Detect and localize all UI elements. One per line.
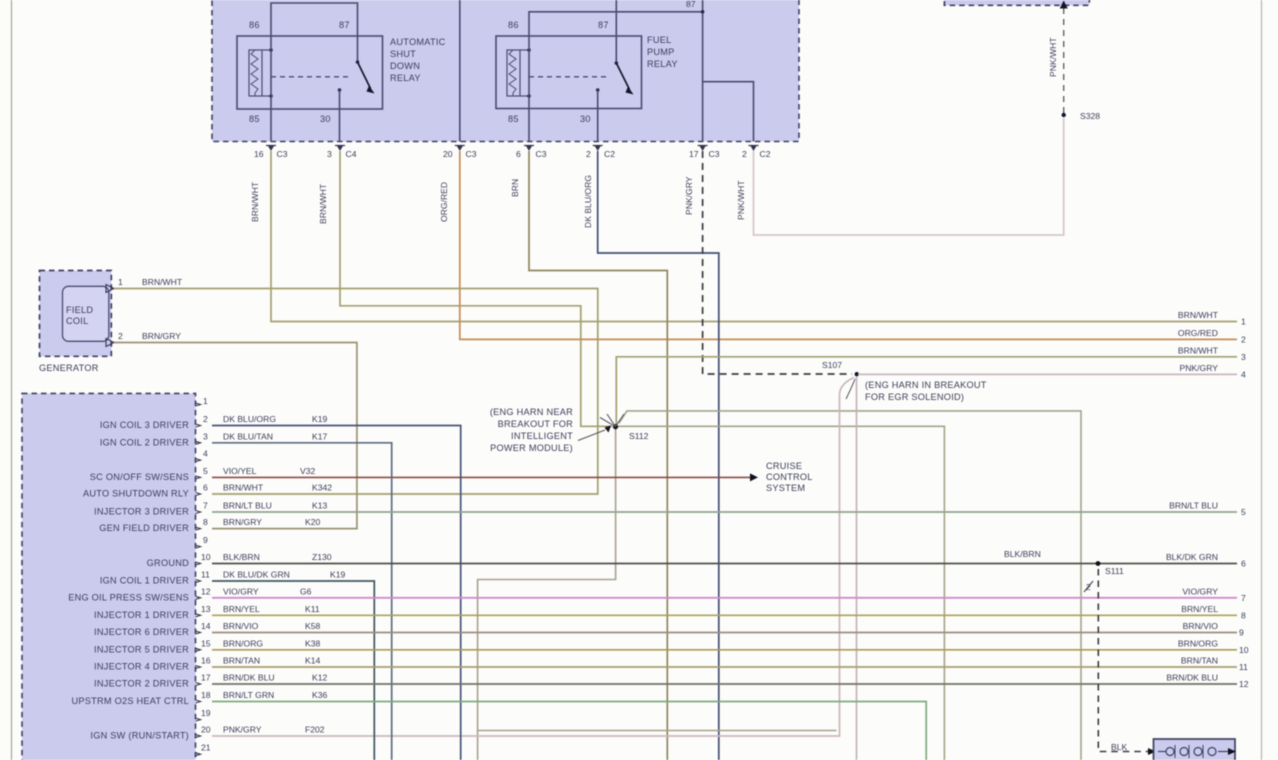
svg-text:SHUT: SHUT: [390, 49, 416, 59]
label VIO/YEL V32 pin5: [223, 466, 316, 476]
svg-text:K12: K12: [312, 673, 328, 683]
svg-text:C3: C3: [536, 149, 547, 159]
ground connector block bottom right: [1154, 739, 1237, 760]
svg-text:2: 2: [118, 331, 123, 341]
svg-text:87: 87: [339, 20, 350, 30]
wire VIO/YEL to cruise control: [212, 473, 758, 481]
svg-text:17: 17: [201, 673, 211, 683]
wire DK BLU/TAN K17 pin3 ignition coil 2: [212, 431, 392, 760]
svg-text:(ENG HARN NEAR: (ENG HARN NEAR: [490, 407, 573, 417]
connector C3 pin 17 symbol: [689, 146, 720, 160]
svg-text:3: 3: [1241, 352, 1246, 362]
svg-text:6: 6: [1241, 559, 1246, 569]
svg-text:K58: K58: [305, 621, 321, 631]
svg-text:2: 2: [586, 149, 591, 159]
svg-text:BRN/WHT: BRN/WHT: [250, 181, 260, 222]
svg-text:BRN/LT BLU: BRN/LT BLU: [1169, 501, 1218, 511]
svg-text:K36: K36: [312, 690, 328, 700]
svg-text:86: 86: [508, 20, 519, 30]
svg-text:1: 1: [1241, 317, 1246, 327]
wire DK BLU/DK GRN K19 pin11 ignition coil 1: [212, 570, 374, 760]
svg-text:INJECTOR 1 DRIVER: INJECTOR 1 DRIVER: [94, 610, 189, 620]
svg-text:K14: K14: [305, 656, 321, 666]
svg-text:FIELD: FIELD: [66, 305, 93, 315]
svg-text:10: 10: [201, 552, 211, 562]
border right: [1261, 0, 1263, 760]
svg-text:17: 17: [689, 149, 699, 159]
svg-text:BRN/DK BLU: BRN/DK BLU: [223, 673, 275, 683]
svg-text:14: 14: [201, 621, 211, 631]
svg-text:PNK/WHT: PNK/WHT: [736, 180, 746, 220]
wire S112 through line to bottom at x944: [616, 426, 945, 760]
svg-text:PNK/WHT: PNK/WHT: [1048, 37, 1058, 77]
svg-text:BRN/YEL: BRN/YEL: [223, 604, 260, 614]
svg-text:BRN/LT BLU: BRN/LT BLU: [223, 501, 272, 511]
field coil inner box: [63, 286, 109, 341]
svg-text:8: 8: [1241, 610, 1246, 620]
svg-text:S111: S111: [1105, 566, 1124, 576]
wire BRN/WHT from C4-3 to S112: [318, 151, 612, 426]
svg-text:BLK: BLK: [1111, 742, 1128, 752]
connector C3 pin 6 symbol: [516, 146, 547, 160]
generator dashed box: [40, 271, 112, 357]
generator name label: [39, 363, 99, 373]
relay K2 name label: [647, 35, 678, 69]
wire ORG/RED feed inside PDC: [459, 0, 461, 142]
wire PNK/GRY S107 down to bottom edge: [856, 376, 858, 760]
svg-text:21: 21: [201, 743, 211, 753]
svg-text:18: 18: [201, 690, 211, 700]
wire PNK/GRY dashed from C3-17 to S107: [684, 151, 852, 374]
right edge label row2 ORG/RED: [1178, 328, 1246, 345]
svg-text:PNK/GRY: PNK/GRY: [684, 176, 694, 215]
wire BLK/BRN Z130 pin10 ground row6: [212, 552, 1237, 564]
svg-text:K19: K19: [330, 570, 346, 580]
relay K1 name label: [390, 37, 446, 83]
svg-text:2: 2: [1241, 334, 1246, 344]
svg-text:RELAY: RELAY: [647, 59, 678, 69]
wire PNK/GRY feed inside PDC: [701, 0, 705, 142]
svg-text:2: 2: [742, 149, 747, 159]
svg-text:11: 11: [201, 570, 210, 580]
svg-text:BRN: BRN: [510, 179, 520, 197]
svg-text:BLK/DK GRN: BLK/DK GRN: [1166, 552, 1218, 562]
svg-text:20: 20: [201, 725, 211, 735]
svg-text:ORG/RED: ORG/RED: [439, 182, 449, 222]
relay K1 pin 30 wire: [338, 88, 342, 141]
svg-text:C2: C2: [760, 149, 771, 159]
svg-text:C3: C3: [277, 149, 288, 159]
right edge label row11 BRN/TAN: [1181, 656, 1248, 673]
wire PNK/WHT from C2-2b: [736, 118, 1064, 235]
svg-text:IGN COIL 1 DRIVER: IGN COIL 1 DRIVER: [100, 576, 189, 586]
generator pin 2 terminal: [106, 331, 123, 347]
svg-text:VIO/YEL: VIO/YEL: [223, 466, 257, 476]
svg-text:BRN/GRY: BRN/GRY: [223, 517, 262, 527]
svg-text:FOR EGR SOLENOID): FOR EGR SOLENOID): [865, 392, 964, 402]
svg-text:DK BLU/ORG: DK BLU/ORG: [223, 414, 276, 424]
right edge label row4 PNK/GRY: [1179, 363, 1246, 380]
wire BRN/VIO K58 pin14 injector6 row9: [212, 621, 1237, 633]
power distribution center dashed box: [212, 0, 799, 142]
svg-text:S112: S112: [629, 431, 649, 441]
connector C4 pin 3 symbol: [327, 146, 357, 160]
connector C2 pin 2b symbol: [742, 146, 771, 160]
svg-text:BRN/WHT: BRN/WHT: [223, 483, 264, 493]
svg-text:BLK/BRN: BLK/BRN: [223, 552, 260, 562]
svg-text:K13: K13: [312, 501, 328, 511]
svg-text:IGN COIL 3 DRIVER: IGN COIL 3 DRIVER: [100, 420, 189, 430]
relay K2 coil: [507, 48, 531, 98]
svg-text:INJECTOR 4 DRIVER: INJECTOR 4 DRIVER: [94, 662, 189, 672]
right edge label row7 VIO/GRY: [1182, 586, 1246, 603]
svg-text:S328: S328: [1080, 111, 1100, 121]
right edge label row10 BRN/ORG: [1178, 638, 1249, 655]
svg-text:VIO/GRY: VIO/GRY: [1182, 586, 1218, 596]
svg-text:V32: V32: [300, 466, 316, 476]
svg-text:GEN FIELD DRIVER: GEN FIELD DRIVER: [99, 523, 189, 533]
PCM dashed box: [22, 393, 196, 760]
svg-text:C3: C3: [709, 149, 720, 159]
connector C3 pin 20 symbol: [443, 146, 477, 160]
svg-text:3: 3: [327, 149, 332, 159]
wire VIO/GRY G6 pin12 oil press row7: [212, 586, 1237, 598]
svg-text:12: 12: [1239, 679, 1249, 689]
label BRN/GRY K20 pin8: [223, 517, 321, 527]
svg-text:K19: K19: [312, 414, 328, 424]
relay K2 switch blade: [615, 61, 634, 94]
svg-text:5: 5: [203, 466, 208, 476]
generator pin 1 terminal: [106, 277, 123, 293]
wire S112 branch to lower right and bottom edge: [619, 411, 1081, 760]
wire BLK dashed ground from S111: [1084, 569, 1156, 755]
wire S112 lower leg loop: [478, 427, 837, 760]
connector C2 pin 2 symbol: [586, 146, 615, 160]
splice S111: [1096, 561, 1124, 576]
wire BRN from C3-6 down: [510, 151, 667, 760]
right edge label row12 BRN/DK BLU: [1166, 673, 1248, 690]
connector C3 pin 16 symbol: [254, 146, 288, 160]
svg-text:2: 2: [1086, 582, 1091, 592]
svg-text:BRN/GRY: BRN/GRY: [142, 331, 181, 341]
junction block dashed box top right: [944, 0, 1089, 5]
svg-text:BRN/VIO: BRN/VIO: [1183, 621, 1219, 631]
svg-text:11: 11: [1239, 662, 1248, 672]
border left: [11, 0, 13, 760]
relay K1 pin 86 wire and loop to 87: [271, 3, 358, 142]
svg-text:G6: G6: [300, 586, 312, 596]
wire BRN/DK BLU K12 pin17 injector2 row12: [212, 673, 1237, 685]
relay K2 pin 87 feed wire from top: [615, 0, 617, 63]
wire DK BLU/ORG K19 pin2 ignition coil 3: [212, 414, 461, 760]
splice S107: [822, 360, 859, 376]
PCM pin stubs 1-21: [196, 403, 201, 756]
svg-text:AUTOMATIC: AUTOMATIC: [390, 37, 446, 47]
svg-text:86: 86: [249, 20, 260, 30]
svg-text:85: 85: [508, 114, 519, 124]
svg-text:DK BLU/DK GRN: DK BLU/DK GRN: [223, 570, 290, 580]
svg-text:7: 7: [203, 501, 208, 511]
svg-text:IGN SW (RUN/START): IGN SW (RUN/START): [90, 731, 189, 741]
svg-text:K342: K342: [312, 483, 332, 493]
wire PNK/GRY row4 S107 to right edge: [858, 373, 1237, 375]
relay K2 pin labels: [508, 20, 609, 124]
wire BRN/YEL K11 pin13 injector1 row8: [212, 604, 1237, 616]
label BRN/WHT K342 pin6: [223, 483, 332, 493]
relay K1 automatic shut down relay body: [237, 36, 383, 109]
right edge label row1 BRN/WHT: [1178, 310, 1246, 327]
relay K2 pin 30 wire: [596, 88, 600, 141]
svg-text:19: 19: [201, 708, 211, 718]
right edge label row6 BLK/DK GRN: [1166, 552, 1246, 569]
svg-text:7: 7: [1241, 593, 1246, 603]
svg-text:BRN/WHT: BRN/WHT: [142, 277, 183, 287]
PCM pin numbers: [201, 396, 211, 753]
wire PNK/WHT dashed to junction block: [1048, 1, 1068, 116]
relay K2 armature dashed: [529, 76, 610, 78]
svg-text:ORG/RED: ORG/RED: [1178, 328, 1218, 338]
svg-text:BRN/LT GRN: BRN/LT GRN: [223, 690, 274, 700]
svg-text:BRN/TAN: BRN/TAN: [1181, 656, 1218, 666]
svg-text:FUEL: FUEL: [647, 35, 672, 45]
svg-text:3: 3: [203, 431, 208, 441]
label PNK/GRY F202 pin20: [223, 725, 325, 735]
svg-text:BRN/TAN: BRN/TAN: [223, 656, 260, 666]
label cruise control system: [766, 461, 813, 493]
svg-text:BREAKOUT FOR: BREAKOUT FOR: [498, 419, 573, 429]
svg-text:15: 15: [201, 638, 211, 648]
svg-text:GENERATOR: GENERATOR: [39, 363, 99, 373]
svg-text:BRN/ORG: BRN/ORG: [223, 638, 263, 648]
right edge label row5 BRN/LT BLU: [1169, 501, 1246, 518]
svg-text:6: 6: [203, 483, 208, 493]
relay K2 pin 86 wire and loop: [529, 12, 703, 142]
svg-text:INTELLIGENT: INTELLIGENT: [511, 431, 573, 441]
svg-text:5: 5: [1241, 507, 1246, 517]
svg-text:INJECTOR 2 DRIVER: INJECTOR 2 DRIVER: [94, 679, 189, 689]
svg-text:AUTO SHUTDOWN RLY: AUTO SHUTDOWN RLY: [83, 489, 189, 499]
partial label above PNK/GRY feed: [686, 0, 696, 9]
svg-text:PNK/GRY: PNK/GRY: [1179, 363, 1218, 373]
svg-text:12: 12: [201, 586, 211, 596]
svg-text:87: 87: [598, 20, 609, 30]
svg-text:VIO/GRY: VIO/GRY: [223, 586, 259, 596]
svg-text:9: 9: [203, 535, 208, 545]
svg-text:87: 87: [686, 0, 696, 9]
wire BRN/LT GRN K36 pin18 O2 heater: [212, 690, 926, 760]
svg-text:BRN/YEL: BRN/YEL: [1181, 604, 1218, 614]
svg-text:F202: F202: [305, 725, 325, 735]
svg-text:K17: K17: [312, 431, 328, 441]
svg-text:INJECTOR 3 DRIVER: INJECTOR 3 DRIVER: [94, 507, 189, 517]
svg-text:10: 10: [1239, 645, 1249, 655]
svg-text:BRN/WHT: BRN/WHT: [1178, 345, 1219, 355]
svg-text:SYSTEM: SYSTEM: [766, 483, 805, 493]
splice S112: [578, 414, 649, 441]
svg-text:CRUISE: CRUISE: [766, 461, 802, 471]
svg-text:9: 9: [1239, 628, 1244, 638]
right edge label row3 BRN/WHT: [1178, 345, 1246, 362]
labels BLK/BRN near S111: [1004, 549, 1041, 559]
svg-text:16: 16: [254, 149, 264, 159]
svg-text:2: 2: [203, 414, 208, 424]
svg-text:PNK/GRY: PNK/GRY: [223, 725, 262, 735]
svg-text:DK BLU/TAN: DK BLU/TAN: [223, 431, 273, 441]
wire BRN/ORG K38 pin15 injector5 row10: [212, 638, 1237, 650]
svg-text:K38: K38: [305, 638, 321, 648]
wire BRN/LT BLU K13 pin7 injector3 row5: [212, 501, 1237, 513]
wire PNK/GRY S107 drop to PCM pin20: [212, 378, 854, 737]
svg-text:UPSTRM O2S HEAT CTRL: UPSTRM O2S HEAT CTRL: [72, 696, 189, 706]
svg-text:6: 6: [516, 149, 521, 159]
svg-text:PUMP: PUMP: [647, 47, 675, 57]
svg-text:4: 4: [1241, 369, 1246, 379]
svg-text:S107: S107: [822, 360, 842, 370]
relay K2 fuel pump relay body: [496, 36, 642, 109]
relay K1 pin labels: [249, 20, 350, 124]
svg-text:30: 30: [320, 114, 331, 124]
svg-text:INJECTOR 5 DRIVER: INJECTOR 5 DRIVER: [94, 644, 189, 654]
svg-text:(ENG HARN IN BREAKOUT: (ENG HARN IN BREAKOUT: [865, 380, 987, 390]
svg-text:BRN/ORG: BRN/ORG: [1178, 638, 1218, 648]
svg-text:COIL: COIL: [66, 316, 88, 326]
svg-text:IGN COIL 2 DRIVER: IGN COIL 2 DRIVER: [100, 437, 189, 447]
wire DK BLU/ORG from C2-2 down: [583, 151, 719, 760]
svg-text:POWER MODULE): POWER MODULE): [490, 443, 573, 453]
relay K1 switch blade: [356, 60, 375, 93]
svg-text:SC ON/OFF SW/SENS: SC ON/OFF SW/SENS: [90, 472, 189, 482]
svg-text:ENG OIL PRESS SW/SENS: ENG OIL PRESS SW/SENS: [68, 592, 189, 602]
svg-text:4: 4: [203, 449, 208, 459]
relay K1 coil: [249, 48, 273, 98]
right edge label row8 BRN/YEL: [1181, 604, 1246, 621]
svg-text:16: 16: [201, 656, 211, 666]
wire BRN/GRY generator field to PCM pin8: [114, 331, 357, 529]
svg-text:1: 1: [118, 277, 123, 287]
label ENG HARN NEAR BREAKOUT: [490, 407, 573, 453]
right edge label row9 BRN/VIO: [1183, 621, 1244, 638]
svg-text:30: 30: [580, 114, 591, 124]
svg-text:BRN/WHT: BRN/WHT: [1178, 310, 1219, 320]
svg-text:BRN/WHT: BRN/WHT: [318, 183, 328, 224]
svg-text:RELAY: RELAY: [390, 73, 421, 83]
svg-text:20: 20: [443, 149, 453, 159]
svg-text:BRN/VIO: BRN/VIO: [223, 621, 259, 631]
svg-text:K20: K20: [305, 517, 321, 527]
svg-text:1: 1: [203, 396, 208, 406]
svg-text:13: 13: [201, 604, 211, 614]
svg-text:CONTROL: CONTROL: [766, 472, 813, 482]
svg-text:Z130: Z130: [312, 552, 332, 562]
label ENG HARN IN BREAKOUT FOR EGR SOLENOID: [846, 379, 987, 402]
wire BRN/WHT from C3-16 down to row1: [250, 151, 1237, 322]
svg-text:DOWN: DOWN: [390, 61, 420, 71]
svg-text:85: 85: [249, 114, 260, 124]
svg-text:BLK/BRN: BLK/BRN: [1004, 549, 1041, 559]
svg-text:GROUND: GROUND: [147, 558, 189, 568]
PCM pin name labels: [68, 420, 189, 741]
wire BRN/TAN K14 pin16 injector4 row11: [212, 656, 1237, 668]
svg-text:C3: C3: [466, 149, 477, 159]
wire PNK/WHT branch inside PDC: [703, 82, 754, 142]
svg-text:INJECTOR 6 DRIVER: INJECTOR 6 DRIVER: [94, 627, 189, 637]
wire BRN/WHT row3 from S112 to right edge: [616, 357, 1237, 427]
svg-text:DK BLU/ORG: DK BLU/ORG: [583, 175, 593, 228]
wire ORG/RED from C3-20 down to row2: [439, 151, 1237, 339]
svg-text:BRN/DK BLU: BRN/DK BLU: [1166, 673, 1218, 683]
relay K1 armature dashed: [271, 76, 352, 78]
wire BRN/WHT generator field to S112 net and PCM pin6: [114, 277, 598, 494]
svg-text:C4: C4: [346, 149, 357, 159]
svg-text:8: 8: [203, 517, 208, 527]
splice S328: [1062, 111, 1101, 121]
svg-text:C2: C2: [604, 149, 615, 159]
svg-text:K11: K11: [305, 604, 320, 614]
